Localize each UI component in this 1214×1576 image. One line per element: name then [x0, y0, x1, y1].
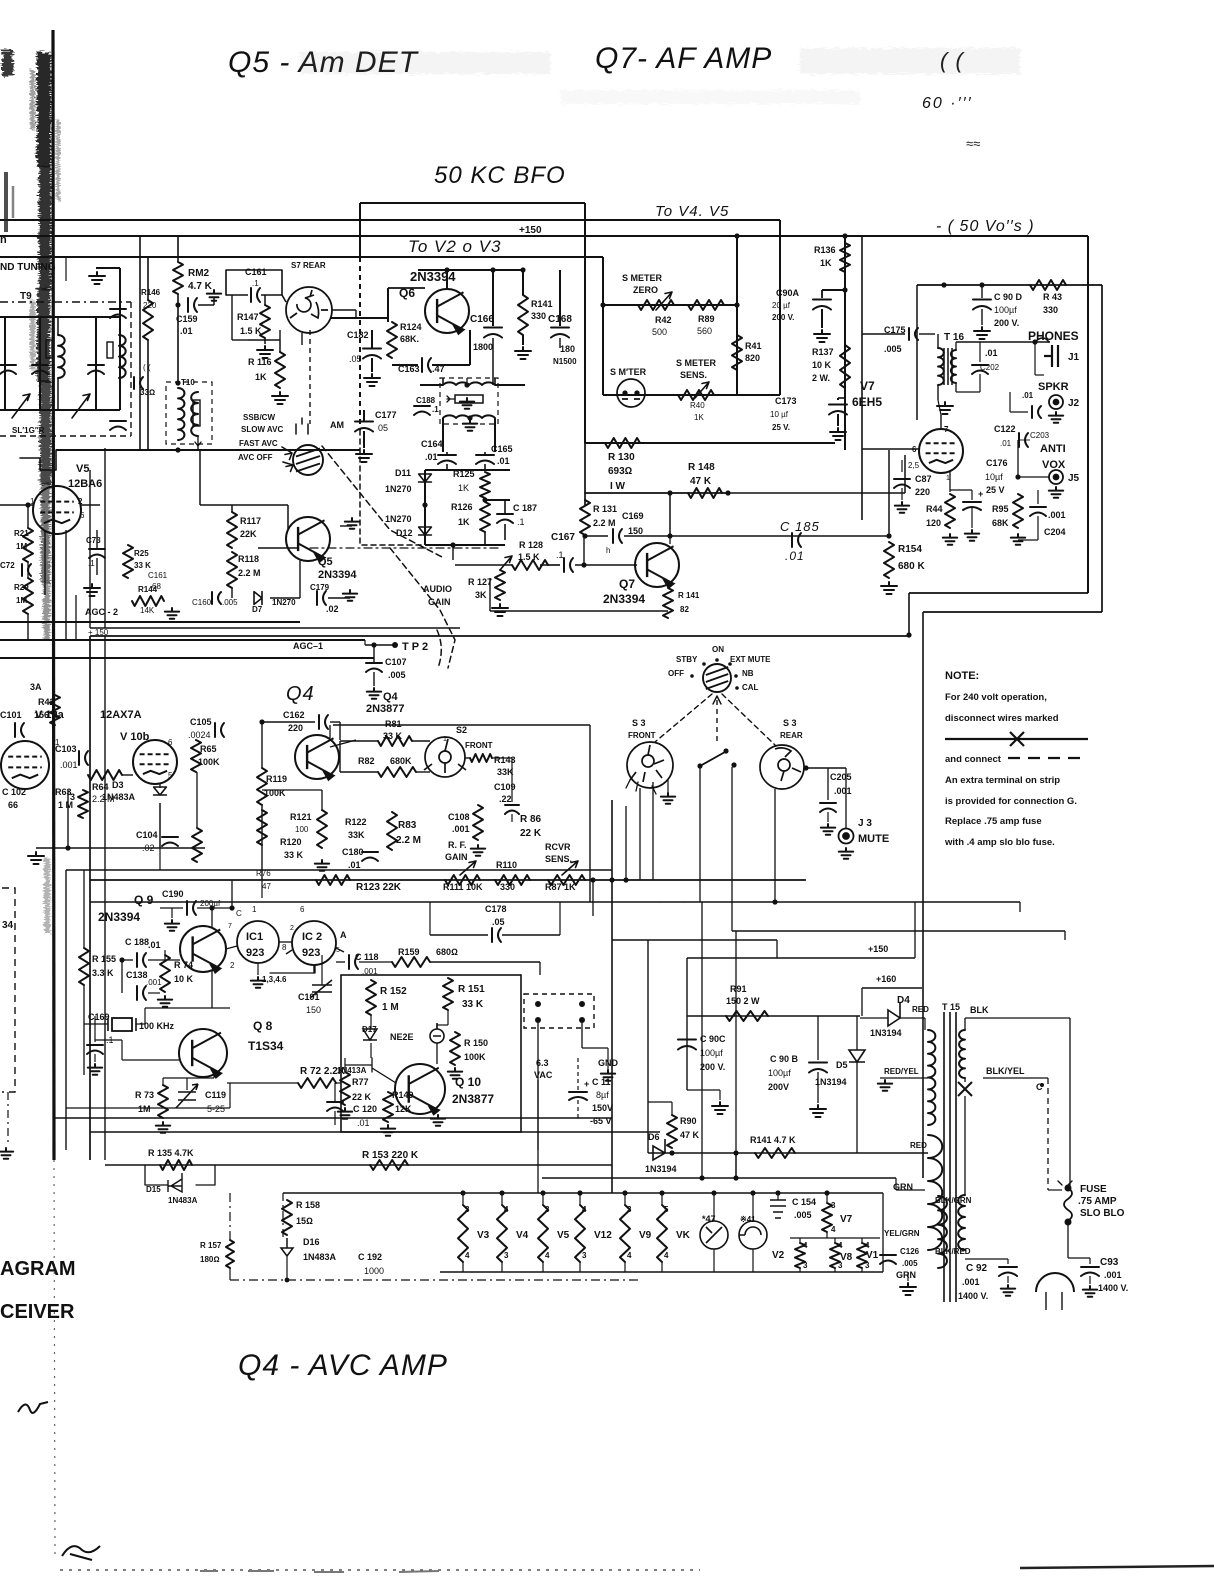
svg-text:C104: C104 [136, 830, 158, 840]
wire C168 top [559, 270, 561, 326]
wire into C162 [262, 721, 315, 723]
wire +160 down [861, 988, 863, 1016]
resistor R81 [378, 736, 412, 746]
wire R131 bottom [585, 535, 608, 537]
wire stub [592, 880, 594, 916]
wire 6.3VAC to heater rail [537, 1080, 539, 1193]
R42 wiper arrow [656, 292, 672, 310]
wire V7 plate top [940, 415, 942, 429]
svg-text:2N3877: 2N3877 [366, 703, 405, 715]
wire S3 front feed [625, 806, 627, 880]
svg-text:4: 4 [865, 1241, 870, 1250]
svg-text:C 154: C 154 [792, 1197, 816, 1207]
wire long vertical x105b [104, 636, 106, 1160]
T10 core [193, 400, 200, 426]
wire inner box left [916, 285, 918, 420]
svg-text:C 90C: C 90C [700, 1034, 726, 1044]
svg-text:FUSE: FUSE [1080, 1184, 1107, 1195]
svg-text:33 K: 33 K [383, 731, 403, 741]
transformer T11 dashed box [440, 378, 498, 424]
wire [522, 270, 524, 295]
svg-text:C122: C122 [994, 424, 1016, 434]
svg-text:3K: 3K [475, 590, 487, 600]
jack J2 [1049, 395, 1063, 409]
svg-text:VK: VK [676, 1230, 691, 1241]
resistor R41 [732, 335, 742, 370]
diode D3 [154, 787, 167, 795]
svg-text:※41: ※41 [740, 1215, 756, 1224]
wire long vertical x90 [89, 636, 91, 1160]
capacitor C202 [972, 365, 988, 374]
svg-text:AUDIO: AUDIO [423, 584, 452, 594]
svg-text:Q 10: Q 10 [455, 1075, 481, 1089]
wire R41 column [736, 236, 738, 395]
trimmer C119 [176, 1084, 198, 1108]
capacitor C161 [251, 288, 260, 302]
wire box inner bottom [66, 1107, 230, 1109]
rotary switch S7 REAR [286, 287, 332, 333]
svg-text:+: + [978, 489, 983, 499]
svg-text:100K: 100K [198, 757, 220, 767]
capacitor C90A [813, 300, 831, 310]
svg-text:100K: 100K [464, 1052, 486, 1062]
resistor R144 [132, 596, 164, 606]
resistor R121 [257, 810, 267, 845]
svg-text:R63: R63 [55, 787, 72, 797]
capacitor C159 [188, 298, 197, 312]
svg-text:R 72 2.2K: R 72 2.2K [300, 1066, 346, 1077]
svg-text:NE2E: NE2E [390, 1032, 414, 1042]
svg-text:923: 923 [246, 947, 264, 959]
svg-text:R136: R136 [814, 245, 836, 255]
svg-text:1: 1 [252, 905, 257, 914]
svg-text:S METER: S METER [622, 273, 663, 283]
T11 secondary coil [443, 415, 495, 418]
wire C162 to Q4 base [339, 722, 341, 740]
svg-text:33K: 33K [348, 830, 365, 840]
junction on bus [906, 632, 911, 637]
svg-text:RCVR: RCVR [545, 842, 571, 852]
svg-text:.005: .005 [884, 344, 902, 354]
wire bus to S-meter box [0, 256, 603, 258]
Q10 box [341, 975, 521, 1132]
capacitor C92 [999, 1267, 1017, 1276]
IC2 pins path [286, 948, 344, 973]
wire AGC-1 bus [0, 639, 365, 641]
svg-text:R 131: R 131 [593, 504, 617, 514]
svg-text:FAST AVC: FAST AVC [239, 439, 278, 448]
svg-text:150V: 150V [592, 1103, 613, 1113]
phones hook wire [1035, 338, 1049, 342]
svg-text:1 M: 1 M [382, 1002, 399, 1013]
svg-text:.001: .001 [1048, 510, 1066, 520]
neon NE2E [430, 1023, 444, 1043]
ground below R116 [272, 392, 288, 404]
wire D6 column [647, 940, 649, 1153]
svg-text:D5: D5 [836, 1060, 848, 1070]
svg-text:R159: R159 [398, 947, 420, 957]
svg-text:15Ω: 15Ω [296, 1216, 313, 1226]
svg-text:22 K: 22 K [520, 828, 542, 839]
capacitor C160 [212, 592, 221, 604]
capacitor C163 [422, 358, 431, 372]
svg-text:S2: S2 [456, 725, 467, 735]
svg-text:REAR: REAR [780, 731, 803, 740]
transistor Q4 [295, 735, 339, 780]
wire S3 rear to C205 [806, 767, 846, 769]
svg-text:1N483A: 1N483A [303, 1252, 337, 1262]
resistor R117 [227, 512, 237, 548]
capacitor C162 [319, 715, 328, 729]
svg-text:3: 3 [803, 1261, 808, 1270]
svg-text:FRONT: FRONT [628, 731, 656, 740]
wire S meter zero row [603, 304, 737, 306]
svg-text:100µf: 100µf [700, 1048, 723, 1058]
svg-text:1N270: 1N270 [385, 514, 412, 524]
wire S7 in [281, 270, 283, 295]
svg-text:C 118: C 118 [355, 952, 379, 962]
svg-text:S7 REAR: S7 REAR [291, 261, 326, 270]
wire R117 top [231, 505, 233, 512]
wire BLK/RED out [965, 1258, 1008, 1260]
wire T11 left [420, 384, 443, 386]
resistor R125 [480, 472, 490, 498]
resistor R136 [840, 243, 850, 272]
wire vertical x140 [139, 236, 141, 450]
svg-text:1K: 1K [820, 258, 832, 268]
svg-text:- ( 50 Vo′′s ): - ( 50 Vo′′s ) [936, 218, 1035, 235]
resistor R149 [383, 1092, 393, 1122]
dashed wire 240V option [1047, 1078, 1049, 1190]
svg-text:.01: .01 [180, 326, 193, 336]
wire primary lower link [964, 1096, 966, 1195]
svg-text:R141: R141 [531, 299, 553, 309]
junction TP2 [392, 642, 398, 648]
svg-text:4: 4 [545, 1251, 550, 1260]
svg-text:+: + [584, 1079, 589, 1089]
svg-text:S M′TER: S M′TER [610, 367, 647, 377]
capacitor C179 [317, 591, 326, 605]
svg-text:2.2 M: 2.2 M [396, 835, 421, 846]
svg-text:An extra terminal on strip: An extra terminal on strip [945, 775, 1060, 786]
wire V7 cathode stub [901, 460, 903, 472]
capacitor C101 [15, 723, 24, 737]
svg-text:SSB/CW: SSB/CW [243, 413, 275, 422]
ground below C73 [84, 584, 100, 596]
wire crystal to Q8 region [145, 1007, 230, 1009]
svg-text:CEIVER: CEIVER [0, 1301, 75, 1323]
svg-text:47 K: 47 K [680, 1130, 700, 1140]
wire Q9 to IC1 [226, 946, 237, 949]
junction T10 top [175, 380, 180, 385]
svg-text:C161: C161 [148, 571, 168, 580]
svg-text:with .4 amp slo blo fus: with .4 amp slo blo fuse. [944, 837, 1055, 848]
potentiometer R111 [445, 875, 480, 885]
wire Q4 collector rail [333, 724, 590, 726]
svg-text:1400 V.: 1400 V. [1098, 1283, 1128, 1293]
wire Q9 emitter down [211, 970, 213, 1008]
wire R155 top [83, 870, 85, 948]
svg-text:820: 820 [745, 353, 760, 363]
svg-text:2N3394: 2N3394 [98, 910, 140, 924]
wire D5 top [856, 1016, 858, 1050]
scan artifact: bottom edge dotted line [60, 1569, 700, 1571]
wire calibrator box left [65, 870, 67, 1150]
bottom left squiggle [62, 1546, 100, 1560]
svg-text:.01: .01 [785, 549, 805, 563]
capacitor C90B [809, 1063, 827, 1073]
svg-text:J1: J1 [1068, 352, 1080, 363]
svg-text:and connect: and connect [945, 754, 1002, 765]
svg-text:disconnect wires marked: disconnect wires marked [945, 713, 1059, 724]
wire BLK/YEL out [983, 1077, 1048, 1079]
T11 slug [455, 395, 483, 403]
capacitor C109 [505, 805, 519, 814]
wire -85V row [648, 1152, 928, 1154]
capacitor C190 [187, 901, 196, 915]
svg-text:SL′1G′′R: SL′1G′′R [12, 426, 45, 435]
svg-text:120: 120 [926, 518, 941, 528]
svg-text:25 V.: 25 V. [772, 423, 790, 432]
capacitor C118 [349, 955, 358, 969]
ground T11 secondary [463, 420, 477, 431]
wire long vertical left of NOTE [922, 612, 924, 1178]
svg-text:C138: C138 [126, 970, 148, 980]
svg-text:C166: C166 [470, 314, 494, 325]
svg-text:Q7: Q7 [619, 577, 635, 591]
wire V7 pin down [949, 470, 951, 492]
resistor R151 [443, 978, 453, 1010]
resistor R86v [473, 805, 483, 840]
wire x702 down to GRN [701, 902, 703, 1178]
wire T9 col4 [95, 317, 97, 410]
svg-text:6: 6 [168, 738, 173, 747]
wire long bus y880 [90, 879, 806, 881]
junction [467, 415, 472, 420]
wire bus y1132 [90, 1131, 660, 1133]
svg-text:D12: D12 [396, 528, 413, 538]
wire lever pole down [699, 768, 701, 902]
capacitor T9 c1 [0, 365, 16, 374]
svg-text:C103: C103 [55, 744, 77, 754]
svg-text:34: 34 [2, 920, 14, 931]
svg-text:V12: V12 [594, 1230, 612, 1241]
wire C161 bypass top [226, 270, 282, 295]
svg-text:ANTI: ANTI [1040, 443, 1066, 455]
svg-text:R89: R89 [698, 314, 715, 324]
svg-text:C107: C107 [385, 657, 407, 667]
wire to TP2 [365, 644, 395, 646]
wire R130 row [585, 442, 835, 444]
svg-text:693Ω: 693Ω [608, 466, 633, 477]
scan artifact: left smudge band [30, 52, 60, 933]
svg-text:R122: R122 [345, 817, 367, 827]
wire heater top rail [283, 1192, 883, 1194]
svg-text:150: 150 [628, 526, 643, 536]
svg-text:6: 6 [80, 511, 85, 520]
svg-text:V8: V8 [840, 1252, 853, 1263]
svg-text:S 3: S 3 [783, 718, 797, 728]
wire CT tap [880, 1077, 928, 1079]
ground heater rail [900, 1283, 916, 1295]
wire C163 to Q6 emitter [432, 364, 470, 366]
wire detector bottom rail [425, 544, 505, 546]
junction T10 bottom [175, 447, 180, 452]
svg-text:C126: C126 [900, 1247, 920, 1256]
resistor R159 [392, 957, 430, 967]
svg-text:C190: C190 [162, 889, 184, 899]
svg-text:R. F.: R. F. [448, 840, 467, 850]
ground below C189 [88, 1064, 102, 1075]
dash-dot detector box bottom [310, 547, 500, 549]
svg-text:3: 3 [545, 1205, 550, 1214]
capacitor spkr [1032, 406, 1041, 418]
svg-text:25 V: 25 V [986, 485, 1005, 495]
arrow under rotary [713, 696, 721, 704]
resistor R64 [88, 770, 122, 780]
wire S-meter box left edge [602, 257, 604, 395]
resistor R83 [387, 812, 397, 850]
svg-text:3: 3 [831, 1201, 836, 1210]
capacitor C188b [137, 953, 146, 967]
wire bus AGC left [0, 621, 300, 623]
svg-text:7: 7 [228, 923, 232, 930]
capacitor C93 [1081, 1267, 1099, 1276]
svg-text:R 157: R 157 [200, 1241, 222, 1250]
wire vertical x76 [75, 595, 77, 640]
T9 core bar 2 [107, 342, 113, 358]
ground below R44 [943, 534, 957, 545]
svg-text:C173: C173 [775, 396, 797, 406]
capacitor T9 c2 [32, 365, 48, 374]
coil T9 primary [58, 335, 65, 378]
ground below J2 [1049, 412, 1063, 423]
wire BFO box right edge down to R130 line [584, 203, 586, 443]
wire D7 to Q5 emitter [270, 597, 300, 599]
wire from R127 [489, 578, 491, 611]
resistor R116 [275, 352, 285, 388]
svg-text:R21: R21 [14, 529, 29, 538]
resistor R126 [480, 502, 490, 532]
svg-text:5: 5 [168, 771, 173, 780]
resistor R135 [160, 1160, 192, 1170]
capacitor C90D [973, 300, 991, 310]
heater resistor V1 row2 [857, 1243, 867, 1268]
svg-text:R 116: R 116 [248, 357, 272, 367]
svg-text:3A: 3A [30, 682, 42, 692]
wire plug left [1045, 1292, 1047, 1310]
wire long vertical x105 [104, 448, 106, 628]
svg-text:.01: .01 [425, 452, 438, 462]
svg-text:D17: D17 [362, 1025, 377, 1034]
wire C188 to Q9 base [148, 959, 180, 961]
svg-text:5: 5 [664, 1205, 669, 1214]
ground right of C179 [343, 590, 357, 601]
svg-text:V7: V7 [860, 379, 875, 393]
capacitor C154 [770, 1200, 786, 1218]
wire R29 bottom [27, 614, 29, 640]
wire C138 column [121, 960, 123, 993]
scan artifact: bottom speck row [200, 1571, 439, 1572]
svg-text:To V4. V5: To V4. V5 [655, 203, 729, 220]
svg-text:680Ω: 680Ω [436, 947, 458, 957]
svg-text:2,5: 2,5 [908, 461, 920, 470]
scan artifact: faint smear mid top [560, 90, 860, 104]
svg-text:10 K: 10 K [174, 974, 194, 984]
svg-text:1N3194: 1N3194 [645, 1164, 677, 1174]
svg-text:T P 2: T P 2 [402, 641, 428, 653]
capacitor C205 [820, 803, 836, 812]
svg-text:C: C [236, 909, 242, 918]
wire V7 block left edge [861, 237, 863, 520]
svg-text:50 KC BFO: 50 KC BFO [434, 162, 566, 189]
ground below IC1 [251, 977, 265, 988]
transistor Q10 [395, 1064, 445, 1114]
svg-text:I W: I W [610, 481, 626, 492]
capacitor C126 [880, 1255, 896, 1264]
svg-text:1: 1 [443, 736, 447, 743]
svg-text:180: 180 [560, 344, 575, 354]
wire GRN to heater coil [896, 1189, 925, 1191]
heater resistor V7 [822, 1203, 832, 1232]
svg-text:R76: R76 [256, 869, 271, 878]
wire up to V7 pin [904, 455, 906, 493]
diode D16 [281, 1238, 293, 1256]
svg-text:R118: R118 [238, 554, 259, 564]
svg-text:R 127: R 127 [468, 577, 492, 587]
wire Q5 right [340, 525, 352, 527]
resistor R110 [495, 875, 530, 885]
svg-text:≈≈: ≈≈ [966, 136, 980, 151]
terminal strip dashed box [524, 994, 594, 1028]
svg-text:923: 923 [302, 947, 320, 959]
svg-text:V3: V3 [477, 1230, 490, 1241]
svg-text:R 151: R 151 [458, 984, 485, 995]
240V X mark [958, 1082, 972, 1096]
ground below R77 [338, 1108, 352, 1119]
svg-text:1M: 1M [16, 596, 27, 605]
wires Q10 base [345, 1058, 396, 1083]
svg-text:14K: 14K [140, 606, 155, 615]
svg-text:.05: .05 [349, 354, 362, 364]
svg-text:T9: T9 [20, 291, 32, 302]
svg-text:R40: R40 [690, 401, 705, 410]
svg-text:3: 3 [582, 1251, 587, 1260]
svg-text:2: 2 [290, 925, 294, 932]
svg-text:C159: C159 [176, 314, 198, 324]
svg-text:+150: +150 [868, 944, 888, 954]
capacitor C120 [327, 1102, 343, 1111]
svg-text:.01: .01 [985, 348, 998, 358]
junction [520, 267, 525, 272]
wire bus y931 [732, 930, 1065, 932]
svg-text:C162: C162 [283, 710, 305, 720]
svg-text:R123 22K: R123 22K [356, 882, 402, 893]
svg-text:C178: C178 [485, 904, 507, 914]
svg-text:C93: C93 [1100, 1257, 1119, 1268]
svg-text:C72: C72 [0, 561, 15, 570]
ground T9 [89, 272, 105, 284]
resistor R65 [191, 740, 201, 772]
svg-text:.01: .01 [148, 940, 161, 950]
svg-text:AVC OFF: AVC OFF [238, 453, 273, 462]
wire R146 top [147, 257, 149, 300]
svg-text:150 2 W: 150 2 W [726, 996, 760, 1006]
diode D11 [419, 474, 432, 482]
svg-text:R44: R44 [926, 504, 943, 514]
resistor R152 [366, 980, 376, 1015]
svg-text:C 188: C 188 [125, 937, 149, 947]
